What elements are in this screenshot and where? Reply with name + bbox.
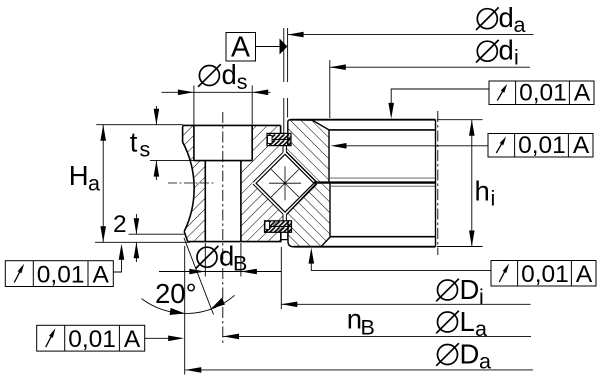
svg-text:d: d — [222, 59, 237, 90]
extension line datum surface — [283, 28, 285, 133]
frame 5 leader — [309, 248, 492, 271]
gap walls below roller — [283, 214, 286, 221]
svg-text:A: A — [93, 261, 110, 288]
svg-text:A: A — [231, 32, 250, 64]
dimension dB — [159, 269, 281, 275]
label da — [476, 2, 526, 37]
svg-text:H: H — [69, 160, 89, 191]
svg-text:a: a — [475, 317, 487, 341]
dimension ds extension lines — [194, 86, 252, 125]
svg-text:a: a — [88, 171, 100, 195]
dimension ts — [154, 106, 160, 180]
svg-text:B: B — [361, 316, 375, 340]
svg-text:A: A — [574, 79, 591, 106]
top face extension left — [96, 124, 183, 126]
dimension La — [223, 334, 531, 340]
svg-text:D: D — [460, 274, 480, 305]
svg-text:i: i — [479, 285, 484, 309]
frame 3 leader — [113, 244, 124, 272]
svg-text:i: i — [514, 46, 519, 70]
label La — [436, 306, 487, 341]
svg-text:A: A — [573, 132, 590, 159]
dimension da — [288, 32, 534, 38]
outer ring lower half (hatched) — [286, 184, 330, 247]
svg-text:0,01: 0,01 — [68, 326, 116, 353]
label hi — [475, 176, 496, 211]
roller (diamond) — [256, 154, 314, 212]
svg-text:a: a — [479, 350, 491, 374]
inner ring outline — [183, 125, 281, 241]
extension line di — [329, 60, 331, 118]
svg-text:a: a — [514, 13, 526, 37]
top seal — [267, 133, 291, 145]
roller cross mark — [269, 166, 301, 200]
svg-text:d: d — [499, 2, 514, 33]
svg-text:h: h — [475, 176, 490, 207]
datum A box — [226, 32, 256, 64]
datum leader and triangle — [256, 39, 287, 55]
outer ring bolt axis centerline — [437, 111, 439, 255]
outer ring upper half (hatched) — [286, 120, 329, 182]
inner ring counterbore void — [194, 124, 252, 161]
label Da — [436, 339, 491, 374]
label 20 — [155, 278, 197, 309]
svg-text:L: L — [460, 306, 475, 337]
line A (seal face extension) — [129, 233, 185, 235]
runout frame 4 — [37, 325, 145, 353]
label ts — [130, 127, 150, 162]
svg-text:t: t — [130, 127, 138, 158]
dimension Ha — [100, 125, 106, 243]
svg-text:0,01: 0,01 — [519, 79, 567, 106]
svg-text:0,01: 0,01 — [521, 261, 569, 288]
svg-text:d: d — [219, 241, 234, 272]
svg-text:20°: 20° — [155, 278, 197, 309]
svg-text:A: A — [576, 261, 593, 288]
dimension Da — [185, 367, 533, 373]
frame 4 leader — [145, 336, 185, 342]
svg-text:2: 2 — [113, 211, 127, 238]
label Di — [436, 274, 484, 309]
label nB — [347, 303, 375, 339]
svg-text:0,01: 0,01 — [518, 132, 566, 159]
bottom seal — [265, 221, 292, 240]
svg-text:D: D — [460, 339, 480, 370]
hi extension lines — [437, 120, 483, 247]
frame 1 leader — [388, 89, 489, 119]
svg-text:A: A — [124, 326, 141, 353]
runout frame 2 — [488, 132, 593, 159]
inner ring bore void — [205, 161, 241, 242]
svg-text:d: d — [499, 35, 514, 66]
counterbore outline — [194, 125, 252, 160]
bore walls — [205, 161, 241, 242]
dimension 2 — [134, 214, 140, 262]
bore extension lines — [205, 243, 241, 277]
svg-text:s: s — [237, 70, 248, 94]
extension V1 (left surface down) — [184, 246, 186, 375]
line B (bottom face extension) — [95, 241, 190, 243]
svg-text:0,01: 0,01 — [37, 261, 85, 288]
dimension Di — [281, 302, 530, 308]
runout frame 3 — [5, 261, 113, 289]
label dB — [196, 241, 248, 276]
groove centerline — [168, 182, 214, 184]
runout frame 1 — [489, 79, 594, 106]
label Ha — [69, 160, 100, 195]
label ds — [198, 59, 247, 94]
svg-text:s: s — [140, 138, 151, 162]
runout frame 5 — [491, 261, 596, 288]
label di — [476, 35, 519, 70]
frame 2 leader — [331, 143, 489, 149]
raceway lines — [253, 152, 317, 215]
20 deg slant line — [184, 238, 214, 315]
20 deg arc — [142, 295, 235, 315]
extension line da — [287, 28, 289, 118]
svg-text:B: B — [233, 252, 247, 276]
outer ring right-side faces — [291, 120, 436, 247]
dimension hi — [469, 120, 475, 247]
dimension ds — [162, 90, 271, 96]
svg-text:i: i — [491, 187, 496, 211]
gap walls above roller — [283, 146, 286, 153]
extension De (seal surface down) — [280, 247, 282, 309]
inner ring body (left ring, hatched) — [183, 125, 283, 241]
bolt hole centerline — [222, 112, 224, 344]
dimension di — [330, 64, 530, 70]
counterbore floor extension — [150, 160, 196, 162]
label 2 — [113, 211, 127, 238]
